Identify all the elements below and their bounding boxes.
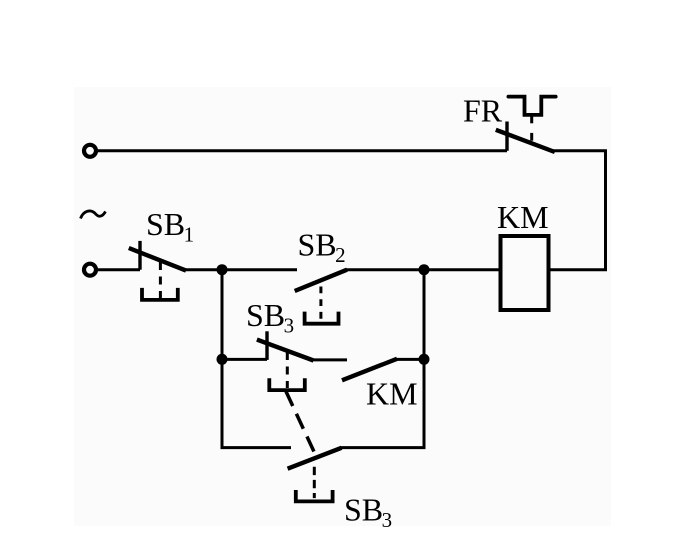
SB3 dashed actuator [286,352,289,388]
SB1 contact blade [129,248,186,271]
FR heater element [508,97,555,115]
SB3 bottom contact blade [288,448,342,469]
SB2 button head [305,312,339,324]
contactor coil KM [501,236,549,310]
junction [217,264,228,275]
SB3 fixed contact tick [265,331,268,360]
wire [345,268,500,271]
svg-text:KM: KM [366,375,418,411]
wire bottom rail left [221,446,292,449]
SB3 bottom dashed actuator [313,467,316,498]
wire bottom rail right [340,446,426,449]
SB2 dashed actuator [319,287,322,320]
svg-text:FR: FR [463,93,503,129]
wire [312,358,347,361]
wire [222,358,267,361]
SB1 fixed contact tick [138,241,141,270]
junction [419,354,430,365]
SB1 button head [142,288,178,300]
junction [217,354,228,365]
AC source symbol ~ [81,211,106,219]
wire [185,268,297,271]
KM auxiliary contact blade [342,359,397,381]
wire [396,358,424,361]
wire [97,268,140,271]
mechanical link (dashed diagonal) [286,391,315,452]
SB3 contact blade [257,340,314,361]
terminal (top left) [84,145,96,157]
terminal (row 2 left) [84,264,96,276]
FR actuator stub [530,115,533,123]
SB3 bottom button head [296,490,333,501]
FR fixed contact tick [505,122,508,151]
FR contact blade [496,130,555,152]
wire mid-right rail [423,270,426,448]
FR dashed link [530,133,533,141]
wire left rail [221,270,224,448]
svg-text:KM: KM [497,199,549,235]
wire top-right corner to coil [549,151,606,270]
wire top rail [97,149,507,152]
SB1 dashed actuator [159,262,162,298]
SB2 contact blade [295,270,347,291]
SB3 button head [269,378,305,390]
junction [419,264,430,275]
